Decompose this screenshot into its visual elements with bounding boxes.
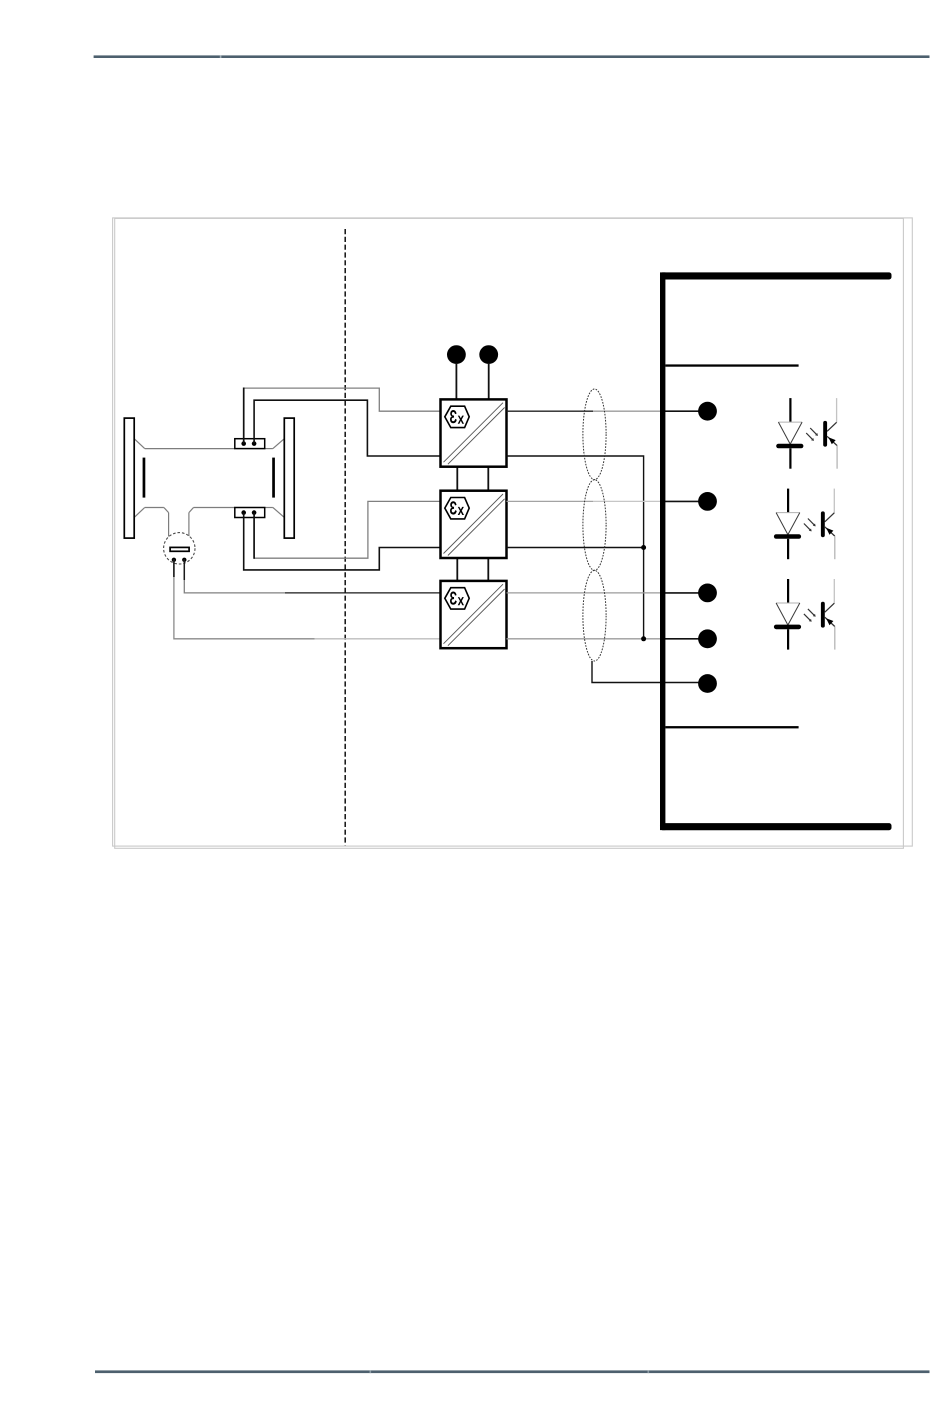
control system panel left edge (thick) [660, 272, 665, 830]
terminal 4 [698, 629, 717, 648]
footer rule [95, 1370, 930, 1373]
optocoupler OC2: LED [774, 489, 801, 560]
wire: barrier 3 lower output to terminal 4 [507, 638, 661, 640]
wire: barrier 3 upper output to terminal 3 [507, 592, 661, 594]
flowmeter left flange [124, 418, 134, 538]
optocoupler OC2: light arrows [804, 519, 816, 532]
wire: barrier 1 lower output down common rail [507, 456, 644, 639]
optocoupler OC3: light arrows [804, 609, 816, 622]
isolation barrier U3 [441, 581, 507, 648]
optocoupler OC1: light arrows [806, 428, 818, 441]
cable shield ellipse 1 [583, 389, 606, 480]
optocoupler OC1: LED [776, 398, 803, 469]
isolation barrier U2 [441, 491, 507, 558]
junction dot rail/barrier3 [641, 636, 646, 641]
wire: shield drain to terminal 5 [592, 661, 660, 683]
optocoupler OC1: phototransistor [823, 398, 837, 469]
cable shield ellipse 3 [583, 570, 606, 661]
wire: meter top-left terminal to barrier 1 upper input [244, 388, 440, 444]
left electrode bar [143, 458, 146, 498]
wire: barrier 1 to barrier 2 links [457, 467, 488, 491]
terminal 1 [698, 402, 717, 421]
wire: barrier 2 to barrier 3 links [457, 558, 488, 581]
control system panel bottom edge (thick) [660, 823, 892, 830]
wire: sensor right terminal to barrier 3 upper input [184, 560, 440, 593]
optocoupler OC2: phototransistor [821, 489, 835, 560]
panel separator line lower [665, 726, 798, 728]
wire: supply B down to barrier 1 [488, 363, 490, 399]
figure frame outer [113, 218, 913, 846]
junction dot rail/barrier2 [641, 545, 646, 550]
terminal stubs through panel edge [660, 411, 699, 682]
wire: barrier 2 lower output to common rail [507, 547, 644, 549]
wire: sensor left terminal to barrier 3 lower input [174, 560, 440, 639]
terminal 5 [698, 674, 717, 693]
wire: meter bottom-right terminal to barrier 2 upper input (gray) [254, 501, 440, 558]
isolation barrier U1 [441, 399, 507, 466]
terminal 3 [698, 584, 717, 603]
supply terminal circle B above barrier 1 [479, 345, 498, 364]
hazardous/safe area dashed divider [344, 229, 346, 846]
wire: barrier 1 upper output to terminal 1 [507, 410, 661, 412]
optocoupler OC3: LED [774, 579, 801, 650]
right electrode bar [272, 458, 275, 498]
flowmeter body outline [134, 439, 284, 518]
panel separator line upper [665, 364, 798, 366]
wire: meter bottom-left terminal to barrier 2 lower input (black) [244, 513, 440, 570]
bottom terminal box on meter [235, 508, 265, 518]
wire: supply A down to barrier 1 [455, 363, 457, 399]
wire: barrier 2 upper output to terminal 2 [507, 500, 661, 502]
figure frame inner [115, 218, 904, 848]
supply terminal circle A above barrier 1 [447, 345, 466, 364]
flowmeter right flange [284, 418, 294, 538]
cable shield ellipse 2 [583, 480, 606, 571]
header rule [94, 55, 930, 58]
terminal 2 [698, 492, 717, 511]
sensor circle (transmitter) [164, 533, 195, 564]
sensor terminal dots [172, 558, 176, 562]
control system panel top edge (thick) [660, 272, 892, 279]
sensor branch pipe [164, 508, 194, 537]
wire: meter top-right terminal to barrier 1 lower input (black) [254, 400, 440, 456]
top terminal box on meter [235, 439, 265, 449]
sensor display window [170, 547, 189, 551]
optocoupler OC3: phototransistor [821, 579, 835, 650]
